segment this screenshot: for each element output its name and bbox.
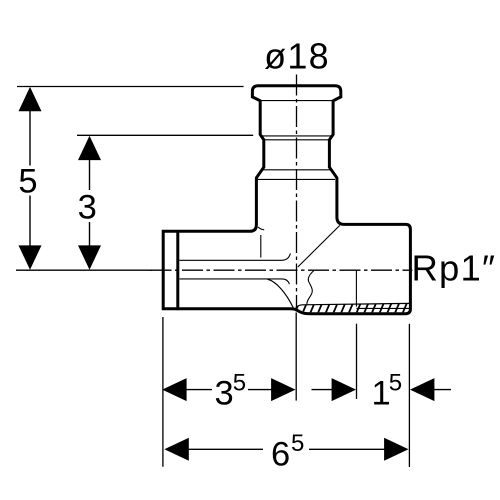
dimension 5 line <box>29 110 31 247</box>
socket step edge lower <box>264 139 329 141</box>
saddle curve <box>267 279 293 307</box>
dimension 65 arrow left <box>164 438 188 461</box>
svg-text:3: 3 <box>78 188 97 226</box>
cone transition diagonal <box>298 225 340 267</box>
dimension 65 arrow right <box>384 438 408 461</box>
svg-text:6: 6 <box>271 435 290 473</box>
dimension 3 arrow up <box>78 136 101 160</box>
extension line below right end <box>408 324 410 467</box>
blend arc at left fillet <box>258 227 264 230</box>
dimension 65 line <box>187 448 386 450</box>
dimension 35 arrow right <box>271 378 295 401</box>
svg-text:5: 5 <box>389 369 402 396</box>
thread hatch strokes <box>294 301 408 315</box>
vertical centerline of branch <box>296 75 298 307</box>
extension line bottom-left shared <box>16 269 152 271</box>
thread end line <box>355 270 357 306</box>
horizontal centerline of body <box>151 269 413 271</box>
dimension 35 arrow left <box>162 378 186 401</box>
dimension 5 arrow up <box>19 87 42 111</box>
svg-text:1: 1 <box>372 375 391 413</box>
bead bottom edge <box>258 100 336 102</box>
fitting outer profile (tee body, press socket branch, threaded sleeve) <box>163 86 410 314</box>
bore lower line with hook <box>179 279 289 284</box>
dimension 3 line <box>89 159 91 247</box>
svg-text:Rp1″: Rp1″ <box>412 248 497 289</box>
svg-text:5: 5 <box>18 163 37 201</box>
svg-text:5: 5 <box>233 369 246 396</box>
thread mid line <box>356 307 409 309</box>
left socket inner face line <box>176 230 179 310</box>
extension line below left end <box>162 317 164 467</box>
flare edge lower <box>258 178 335 180</box>
branch inner wall line <box>260 235 262 258</box>
svg-text:5: 5 <box>291 430 304 457</box>
bore upper line with upturn <box>179 253 290 260</box>
svg-text:3: 3 <box>215 375 234 413</box>
extension line mid (dim 3) <box>77 134 253 136</box>
dimension 15 arrow left outside <box>332 378 356 401</box>
dimension 15 arrow right outside <box>410 378 434 401</box>
dimension 3 arrow down <box>78 245 101 269</box>
section break wavy line <box>307 271 314 305</box>
svg-text:ø18: ø18 <box>264 36 330 77</box>
extension line below branch centerline <box>295 313 297 401</box>
dimension 35 line <box>186 389 273 391</box>
extension line top (dim 5) <box>17 86 244 88</box>
dimension 5 arrow down <box>19 245 42 269</box>
flare edge upper <box>263 169 331 171</box>
extension line below thread end <box>356 324 358 399</box>
socket step edge upper <box>262 135 332 137</box>
thread hatch top edge <box>296 303 410 307</box>
